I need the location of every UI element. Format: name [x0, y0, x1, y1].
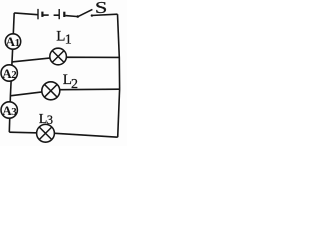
svg-text:1: 1 [15, 37, 21, 49]
svg-text:3: 3 [11, 106, 17, 118]
svg-text:2: 2 [11, 69, 17, 81]
svg-text:1: 1 [65, 32, 72, 47]
svg-text:3: 3 [47, 113, 53, 127]
svg-text:S: S [95, 0, 107, 17]
svg-text:2: 2 [71, 77, 78, 92]
